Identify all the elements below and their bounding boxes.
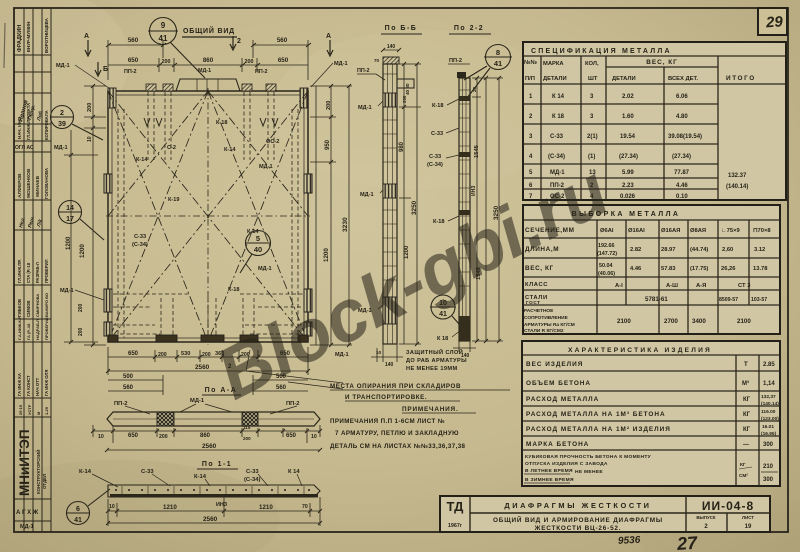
svg-text:МД-1: МД-1 [259, 164, 273, 170]
svg-text:ГОСТ: ГОСТ [526, 300, 541, 305]
svg-text:МД-1: МД-1 [60, 288, 74, 294]
dims under А-А [91, 425, 322, 443]
svg-text:А Г X Ж: А Г X Ж [16, 510, 39, 516]
svg-text:200: 200 [245, 59, 254, 65]
svg-text:Ø16АІ: Ø16АІ [628, 228, 645, 234]
svg-text:А-Ш: А-Ш [666, 283, 678, 289]
svg-text:∟75×9: ∟75×9 [721, 228, 741, 234]
ref circle 8/41 [464, 45, 512, 99]
svg-text:(С-34): (С-34) [427, 162, 443, 168]
svg-text:ВЕС, КГ: ВЕС, КГ [646, 59, 678, 66]
svg-text:П/П: П/П [525, 76, 535, 82]
svg-text:13.78: 13.78 [753, 266, 768, 272]
svg-text:РАСХОД МЕТАЛЛА НА 1М³ БЕТОНА: РАСХОД МЕТАЛЛА НА 1М³ БЕТОНА [526, 411, 666, 418]
svg-text:В ЛЕТНЕЕ ВРЕМЯ: В ЛЕТНЕЕ ВРЕМЯ [525, 468, 573, 474]
svg-text:70: 70 [374, 58, 380, 63]
svg-text:РАЗРАБ-Л: РАЗРАБ-Л [35, 262, 40, 283]
svg-text:(123.00): (123.00) [761, 416, 779, 422]
svg-text:К-18: К-18 [228, 287, 240, 293]
svg-text:МНиИТЭП: МНиИТЭП [17, 429, 32, 496]
page number box 29 [758, 8, 787, 35]
svg-text:МОШЕНКОВ: МОШЕНКОВ [26, 168, 32, 198]
svg-text:(С-34): (С-34) [132, 242, 148, 248]
svg-text:К 14: К 14 [552, 94, 565, 100]
svg-text:2: 2 [60, 110, 64, 117]
svg-text:650: 650 [128, 351, 139, 357]
svg-text:ГЛ.ИНЖ.ПРОЕКТА: ГЛ.ИНЖ.ПРОЕКТА [26, 103, 31, 140]
svg-text:ИТОГО: ИТОГО [726, 75, 756, 82]
svg-text:РАСЧЕТНОЕ: РАСЧЕТНОЕ [524, 308, 554, 314]
svg-text:980: 980 [399, 141, 405, 152]
svg-text:8: 8 [496, 48, 500, 57]
svg-text:Ø8АЯ: Ø8АЯ [690, 228, 706, 234]
scan mottling [0, 460, 280, 552]
svg-text:ЛИСТ: ЛИСТ [742, 515, 754, 520]
svg-text:МД-1: МД-1 [358, 105, 372, 111]
svg-text:650: 650 [286, 433, 297, 439]
corner embed plates [108, 88, 308, 108]
svg-text:МД-1: МД-1 [190, 398, 205, 404]
stray pencil mark on margin [4, 23, 5, 68]
svg-text:СТ 3: СТ 3 [738, 283, 751, 289]
svg-text:—: — [743, 442, 749, 448]
svg-text:2.85: 2.85 [763, 362, 775, 368]
svg-text:1200: 1200 [79, 244, 86, 258]
dims [106, 497, 322, 526]
svg-text:210: 210 [763, 464, 774, 470]
svg-text:Б: Б [103, 66, 108, 73]
svg-text:ПРИМЕЧАНИЯ.: ПРИМЕЧАНИЯ. [402, 406, 459, 413]
small v anchors [144, 118, 278, 126]
svg-text:530: 530 [181, 351, 190, 357]
svg-text:40: 40 [254, 245, 262, 254]
svg-text:(147.72): (147.72) [597, 251, 617, 257]
svg-text:А-Я: А-Я [696, 283, 706, 289]
svg-text:9536: 9536 [618, 535, 641, 547]
dim row under panel [108, 347, 308, 375]
second dim row 650 200 860 200 650 [108, 58, 308, 72]
svg-text:2560: 2560 [195, 364, 210, 371]
svg-text:КОПИРОВАЛА: КОПИРОВАЛА [44, 110, 49, 140]
svg-text:103-57: 103-57 [751, 297, 767, 303]
svg-text:ДО РАБ АРМАТУРЫ: ДО РАБ АРМАТУРЫ [406, 358, 467, 364]
svg-text:По Б-Б: По Б-Б [385, 25, 418, 32]
svg-text:Ø16АЯ: Ø16АЯ [661, 228, 680, 234]
svg-text:УСТР: УСТР [27, 404, 32, 415]
svg-text:6: 6 [76, 506, 80, 513]
svg-text:ВСЕХ ДЕТ.: ВСЕХ ДЕТ. [668, 76, 698, 82]
left dimension chain [84, 84, 106, 347]
svg-text:МД-1: МД-1 [54, 145, 68, 151]
svg-text:ГЛ.ИНЖ.ПР.: ГЛ.ИНЖ.ПР. [17, 259, 22, 283]
svg-text:200: 200 [159, 434, 168, 440]
section mark A left/right, 2 top [85, 36, 333, 76]
svg-text:2,60: 2,60 [722, 247, 733, 253]
svg-text:МАРКА БЕТОНА: МАРКА БЕТОНА [526, 441, 589, 448]
svg-text:5.99: 5.99 [622, 170, 634, 176]
svg-text:16.01: 16.01 [762, 424, 774, 430]
strip body [383, 64, 397, 344]
svg-text:ОС-2: ОС-2 [266, 139, 279, 145]
svg-text:20: 20 [472, 86, 477, 92]
svg-text:КГ: КГ [743, 427, 751, 433]
svg-text:200: 200 [402, 95, 407, 103]
svg-text:4.80: 4.80 [676, 114, 688, 120]
svg-text:МД-1: МД-1 [334, 61, 348, 67]
svg-text:10: 10 [376, 350, 382, 355]
embedded plates (dark) [383, 93, 397, 324]
svg-text:200: 200 [78, 327, 84, 336]
svg-text:560: 560 [128, 37, 139, 44]
svg-text:29 19: 29 19 [18, 404, 23, 415]
svg-text:500: 500 [123, 374, 134, 380]
svg-text:(40.06): (40.06) [598, 271, 615, 277]
svg-text:1967г: 1967г [448, 523, 463, 529]
svg-text:К-14: К-14 [194, 474, 207, 480]
svg-text:(1): (1) [588, 154, 595, 160]
svg-text:ЖЕСТКОСТИ ВЦ-26-52.: ЖЕСТКОСТИ ВЦ-26-52. [534, 525, 622, 532]
left stamp rotated texts [15, 17, 49, 516]
svg-text:ВОРОТНИЦЕВА: ВОРОТНИЦЕВА [44, 17, 49, 53]
svg-text:ГА (Р.-18: ГА (Р.-18 [26, 323, 31, 340]
svg-text:115: 115 [243, 425, 251, 430]
ref circle 14/17 [58, 201, 104, 241]
svg-text:41: 41 [74, 517, 82, 524]
svg-text:КЛАСС: КЛАСС [525, 282, 548, 288]
svg-text:192.66: 192.66 [598, 243, 615, 249]
centre dashed axes [106, 88, 310, 345]
svg-text:1.60: 1.60 [622, 114, 634, 120]
ref circle 5/40 [240, 231, 271, 274]
svg-text:РАСХОД МЕТАЛЛА: РАСХОД МЕТАЛЛА [526, 396, 599, 403]
svg-text:300: 300 [763, 442, 774, 448]
svg-text:МД-1: МД-1 [360, 192, 374, 198]
svg-text:2700: 2700 [664, 318, 678, 325]
svg-text:КОЛ,: КОЛ, [585, 61, 599, 67]
svg-text:ПП-2: ПП-2 [255, 69, 268, 75]
ref circle 2/39 [50, 106, 103, 141]
svg-text:С-33: С-33 [550, 134, 564, 140]
svg-text:39.08(19.54): 39.08(19.54) [668, 134, 702, 140]
svg-text:К 14: К 14 [288, 469, 300, 475]
svg-text:140: 140 [385, 362, 394, 368]
svg-text:(27.34): (27.34) [619, 154, 638, 160]
svg-text:200: 200 [162, 59, 171, 65]
bottom bearing pads [108, 335, 308, 342]
svg-text:И ТРАНСПОРТИРОВКЕ.: И ТРАНСПОРТИРОВКЕ. [345, 394, 427, 401]
svg-text:5781-61: 5781-61 [645, 296, 668, 303]
top edge anchor plates [146, 84, 276, 91]
svg-text:По 1-1: По 1-1 [202, 461, 232, 468]
outer left dim chain [64, 130, 98, 344]
svg-text:2.82: 2.82 [630, 247, 641, 253]
top dimension row 560/560 [106, 40, 311, 80]
svg-text:2.02: 2.02 [622, 94, 634, 100]
svg-text:2(1): 2(1) [587, 134, 598, 140]
rebar dots [115, 489, 310, 491]
svg-text:ШТ: ШТ [588, 76, 598, 82]
bottom dim 140 [453, 341, 476, 352]
svg-text:ИНЗ: ИНЗ [471, 186, 477, 196]
dark bottom chord [110, 494, 318, 497]
svg-text:АЛФЕРОВ: АЛФЕРОВ [17, 173, 23, 198]
diagonal bracing dash-dot lines [108, 91, 308, 342]
svg-text:МД-1: МД-1 [258, 266, 272, 272]
svg-text:К-14: К-14 [136, 157, 148, 163]
watermark Block-gbi.ru [204, 150, 620, 416]
svg-text:ЗАЩИТНЫЙ СЛОЙ: ЗАЩИТНЫЙ СЛОЙ [406, 348, 463, 356]
svg-text:ПП-2: ПП-2 [357, 68, 370, 74]
svg-text:1210: 1210 [163, 504, 177, 511]
svg-text:200: 200 [158, 352, 167, 358]
long leader lines to bearing points [246, 350, 343, 389]
top anchor [457, 72, 466, 78]
svg-text:К-14: К-14 [79, 469, 92, 475]
svg-text:М³: М³ [742, 380, 749, 387]
svg-text:По 2-2: По 2-2 [454, 25, 484, 32]
right dims [472, 76, 503, 343]
svg-text:29: 29 [765, 13, 784, 31]
ref circle 10/41 [430, 295, 459, 324]
svg-text:0.10: 0.10 [676, 194, 688, 200]
svg-text:3400: 3400 [692, 318, 706, 325]
svg-text:СТА (Р.-18: СТА (Р.-18 [26, 262, 31, 283]
svg-text:К-18: К-18 [432, 103, 444, 109]
svg-text:132,37: 132,37 [761, 394, 776, 400]
svg-text:1210: 1210 [259, 504, 273, 511]
svg-text:ТД: ТД [447, 499, 465, 514]
svg-text:132.37: 132.37 [728, 173, 747, 179]
svg-text:950: 950 [325, 139, 331, 150]
strip body [459, 78, 470, 341]
svg-text:17: 17 [66, 216, 74, 223]
svg-text:ПП-2: ПП-2 [286, 401, 300, 407]
svg-text:77.87: 77.87 [674, 170, 690, 176]
svg-text:40 80: 40 80 [405, 83, 410, 95]
svg-text:1545: 1545 [474, 144, 480, 158]
svg-text:МИНАЕВ: МИНАЕВ [35, 175, 41, 197]
inner dashed stirrup verticals under top anchors [113, 92, 303, 340]
svg-text:КГ: КГ [743, 412, 751, 418]
svg-text:КГ: КГ [740, 462, 746, 468]
svg-text:К-19: К-19 [168, 197, 180, 203]
svg-text:ОБЩИЙ ВИД: ОБЩИЙ ВИД [183, 26, 235, 35]
protruding console box [397, 79, 414, 88]
svg-text:860: 860 [203, 57, 214, 64]
panel outline [108, 91, 308, 342]
svg-text:КОНСТРУКТОРСКИЙ: КОНСТРУКТОРСКИЙ [36, 450, 41, 494]
svg-text:860: 860 [200, 433, 211, 439]
svg-text:ИНЗ: ИНЗ [216, 502, 228, 508]
svg-text:50.04: 50.04 [599, 263, 613, 269]
svg-text:26,26: 26,26 [721, 266, 736, 272]
svg-text:41: 41 [494, 59, 502, 68]
svg-text:НЕ МЕНЕЕ: НЕ МЕНЕЕ [575, 469, 603, 475]
svg-text:2560: 2560 [203, 516, 218, 523]
svg-text:10: 10 [98, 434, 104, 440]
svg-text:57.83: 57.83 [661, 266, 676, 272]
svg-text:ОБЩИЙ ВИД И АРМИРОВАНИЕ ДИАФРА: ОБЩИЙ ВИД И АРМИРОВАНИЕ ДИАФРАГМЫ [493, 515, 663, 524]
svg-text:(С-34): (С-34) [244, 477, 260, 483]
svg-text:МЕСТА ОПИРАНИЯ ПРИ СКЛАДИРОВ: МЕСТА ОПИРАНИЯ ПРИ СКЛАДИРОВ [330, 383, 461, 390]
svg-text:650: 650 [128, 433, 139, 439]
svg-text:116.00: 116.00 [761, 409, 776, 415]
svg-text:10: 10 [87, 136, 93, 142]
svg-text:(140.14): (140.14) [761, 401, 779, 407]
svg-text:9: 9 [161, 21, 166, 30]
svg-text:200: 200 [78, 303, 84, 312]
svg-text:(27.34): (27.34) [672, 154, 691, 160]
svg-text:ПРИМЕЧАНИЯ П.П 1-6СМ ЛИСТ №: ПРИМЕЧАНИЯ П.П 1-6СМ ЛИСТ № [330, 418, 445, 425]
svg-text:4.46: 4.46 [630, 266, 642, 272]
svg-text:КУБИКОВАЯ ПРОЧНОСТЬ БЕТОНА К М: КУБИКОВАЯ ПРОЧНОСТЬ БЕТОНА К МОМЕНТУ [525, 454, 652, 460]
svg-text:5: 5 [256, 234, 260, 243]
svg-text:650: 650 [278, 57, 289, 64]
svg-text:140: 140 [387, 44, 396, 50]
svg-text:8509-57: 8509-57 [719, 297, 738, 303]
svg-text:ВЫПУСК: ВЫПУСК [696, 515, 716, 520]
top plate [383, 57, 399, 64]
svg-text:10: 10 [109, 504, 115, 510]
svg-text:2100: 2100 [737, 318, 751, 325]
svg-text:СПЕЦИФИКАЦИЯ МЕТАЛЛА: СПЕЦИФИКАЦИЯ МЕТАЛЛА [531, 48, 672, 55]
cross ties (horizontal ticks) [383, 74, 397, 280]
svg-text:ГА ИНЖ КА: ГА ИНЖ КА [17, 373, 22, 396]
svg-text:27: 27 [675, 533, 698, 552]
svg-text:ПП-2: ПП-2 [124, 69, 137, 75]
svg-text:39: 39 [58, 121, 66, 128]
svg-text:ОГЛ АС: ОГЛ АС [15, 145, 34, 151]
svg-text:ВЕС ИЗДЕЛИЯ: ВЕС ИЗДЕЛИЯ [526, 361, 583, 368]
svg-text:ПРОВЕРИЛ: ПРОВЕРИЛ [44, 317, 49, 340]
svg-text:ФРАДКИН: ФРАДКИН [17, 25, 23, 52]
svg-text:С-2: С-2 [167, 145, 176, 151]
svg-text:ПРОВЕРИЛ: ПРОВЕРИЛ [44, 259, 49, 283]
svg-text:2560: 2560 [202, 443, 217, 450]
svg-text:НАЧ. ИНО: НАЧ. ИНО [17, 116, 22, 139]
svg-text:200: 200 [87, 103, 93, 112]
title circle 9/41 [148, 18, 205, 79]
svg-text:МД-1: МД-1 [198, 68, 211, 74]
svg-text:2: 2 [237, 38, 241, 45]
svg-text:К 18: К 18 [552, 114, 565, 120]
svg-text:СИМОВ: СИМОВ [26, 300, 31, 317]
svg-text:⊓70×8: ⊓70×8 [753, 228, 771, 234]
svg-text:РАСХОД МЕТАЛЛА НА 1М² ИЗДЕЛИЯ: РАСХОД МЕТАЛЛА НА 1М² ИЗДЕЛИЯ [526, 426, 671, 433]
svg-text:560: 560 [277, 37, 288, 44]
svg-text:К 18: К 18 [437, 336, 448, 342]
svg-text:АРМАТУРЫ Rа КГ/СМ: АРМАТУРЫ Rа КГ/СМ [524, 322, 575, 328]
svg-text:А: А [326, 33, 331, 40]
svg-text:МД-1: МД-1 [20, 524, 34, 530]
svg-text:200: 200 [243, 436, 251, 441]
left stamp column grid [14, 8, 51, 532]
svg-text:К-18: К-18 [216, 120, 228, 126]
svg-text:ИИ-04-8: ИИ-04-8 [702, 499, 754, 513]
svg-text:ОБЪЕМ БЕТОНА: ОБЪЕМ БЕТОНА [526, 380, 591, 387]
svg-text:(С-34): (С-34) [548, 154, 565, 160]
svg-text:300: 300 [763, 477, 774, 483]
svg-text:1-29: 1-29 [44, 406, 49, 415]
right-side dims of Б-Б [399, 62, 421, 346]
svg-text:0.026: 0.026 [620, 194, 636, 200]
svg-text:3230: 3230 [342, 217, 349, 232]
svg-text:200: 200 [326, 101, 332, 110]
svg-text:ОТПУСКА ИЗДЕЛИЯ С ЗАВОДА: ОТПУСКА ИЗДЕЛИЯ С ЗАВОДА [525, 461, 608, 467]
svg-text:КГ: КГ [743, 397, 751, 403]
svg-text:19: 19 [745, 524, 752, 530]
svg-text:ДЕТАЛИ: ДЕТАЛИ [612, 76, 636, 82]
svg-text:1200: 1200 [66, 236, 72, 250]
svg-text:1200: 1200 [323, 248, 330, 262]
svg-text:6.06: 6.06 [676, 94, 688, 100]
svg-text:560: 560 [123, 385, 134, 391]
svg-text:ДЕТАЛЬ СМ НА ЛИСТАХ №№33,36,37: ДЕТАЛЬ СМ НА ЛИСТАХ №№33,36,37,38 [330, 443, 466, 450]
svg-text:А: А [84, 33, 89, 40]
svg-text:ОТДЕЛ: ОТДЕЛ [42, 474, 47, 489]
svg-text:СОПРОТИВЛЕНИЕ: СОПРОТИВЛЕНИЕ [524, 315, 569, 321]
svg-text:(16.95): (16.95) [761, 431, 777, 437]
svg-text:СТАЛИ R КГ/СМ2: СТАЛИ R КГ/СМ2 [524, 328, 564, 334]
bottom dims [371, 344, 403, 362]
2560 row [106, 369, 310, 373]
svg-text:ПП-2: ПП-2 [114, 401, 128, 407]
500/560 rows [108, 375, 308, 395]
svg-text:(140.14): (140.14) [726, 184, 748, 190]
svg-text:К-14: К-14 [224, 147, 236, 153]
svg-text:МД-1: МД-1 [56, 63, 70, 69]
svg-text:ДЕТАЛИ: ДЕТАЛИ [543, 76, 567, 82]
svg-text:4.46: 4.46 [676, 183, 688, 189]
svg-text:Г.А.ИНЖ.К.Р.: Г.А.ИНЖ.К.Р. [17, 316, 22, 340]
ref circle 6/41 [66, 489, 110, 525]
svg-text:19.54: 19.54 [620, 134, 636, 140]
svg-text:3.12: 3.12 [754, 247, 765, 253]
svg-text:1,14: 1,14 [763, 381, 775, 387]
svg-text:70: 70 [302, 504, 308, 510]
svg-text:650: 650 [128, 57, 139, 64]
svg-text:ГА КОНСТ: ГА КОНСТ [26, 375, 31, 396]
svg-text:2100: 2100 [617, 318, 631, 325]
svg-text:Т: Т [744, 362, 748, 368]
svg-text:№№: №№ [524, 60, 537, 66]
svg-text:С-33: С-33 [134, 234, 146, 240]
svg-text:В ЗИМНЕЕ ВРЕМЯ: В ЗИМНЕЕ ВРЕМЯ [525, 477, 574, 483]
svg-text:ПП-2: ПП-2 [449, 58, 462, 64]
raised plate МД-1 on top edge [176, 79, 240, 91]
svg-text:ГА ИНЖ ОЛЯ: ГА ИНЖ ОЛЯ [44, 370, 49, 396]
svg-text:НАЧ ОТТ: НАЧ ОТТ [35, 377, 40, 396]
svg-text:28.97: 28.97 [661, 247, 676, 253]
svg-text:НЕ МЕНЕЕ 19ММ: НЕ МЕНЕЕ 19ММ [406, 366, 458, 372]
svg-text:ГОЛОВАНОВА: ГОЛОВАНОВА [44, 167, 49, 199]
svg-text:7 АРМАТУРУ, ПЕТЛЮ И ЗАКЛАДНУЮ: 7 АРМАТУРУ, ПЕТЛЮ И ЗАКЛАДНУЮ [335, 430, 459, 437]
svg-text:2.23: 2.23 [622, 183, 634, 189]
svg-text:(17.75): (17.75) [690, 266, 708, 272]
svg-text:3250: 3250 [411, 200, 418, 215]
right dimension chains of panel [310, 84, 352, 347]
svg-text:10: 10 [311, 434, 317, 440]
svg-text:14: 14 [66, 205, 74, 212]
side embed plates МД-1 [104, 174, 312, 336]
svg-text:ВАНИРО ВО: ВАНИРО ВО [44, 293, 49, 317]
internal reinforcement labels [132, 120, 279, 293]
svg-text:НАДРАБ-Л: НАДРАБ-Л [35, 319, 40, 340]
strip outline [108, 485, 320, 497]
svg-text:ХАРАКТЕРИСТИКА ИЗДЕЛИЯ: ХАРАКТЕРИСТИКА ИЗДЕЛИЯ [568, 347, 712, 354]
А-А strip [107, 412, 320, 426]
svg-text:ГИБКОВ: ГИБКОВ [17, 299, 22, 317]
